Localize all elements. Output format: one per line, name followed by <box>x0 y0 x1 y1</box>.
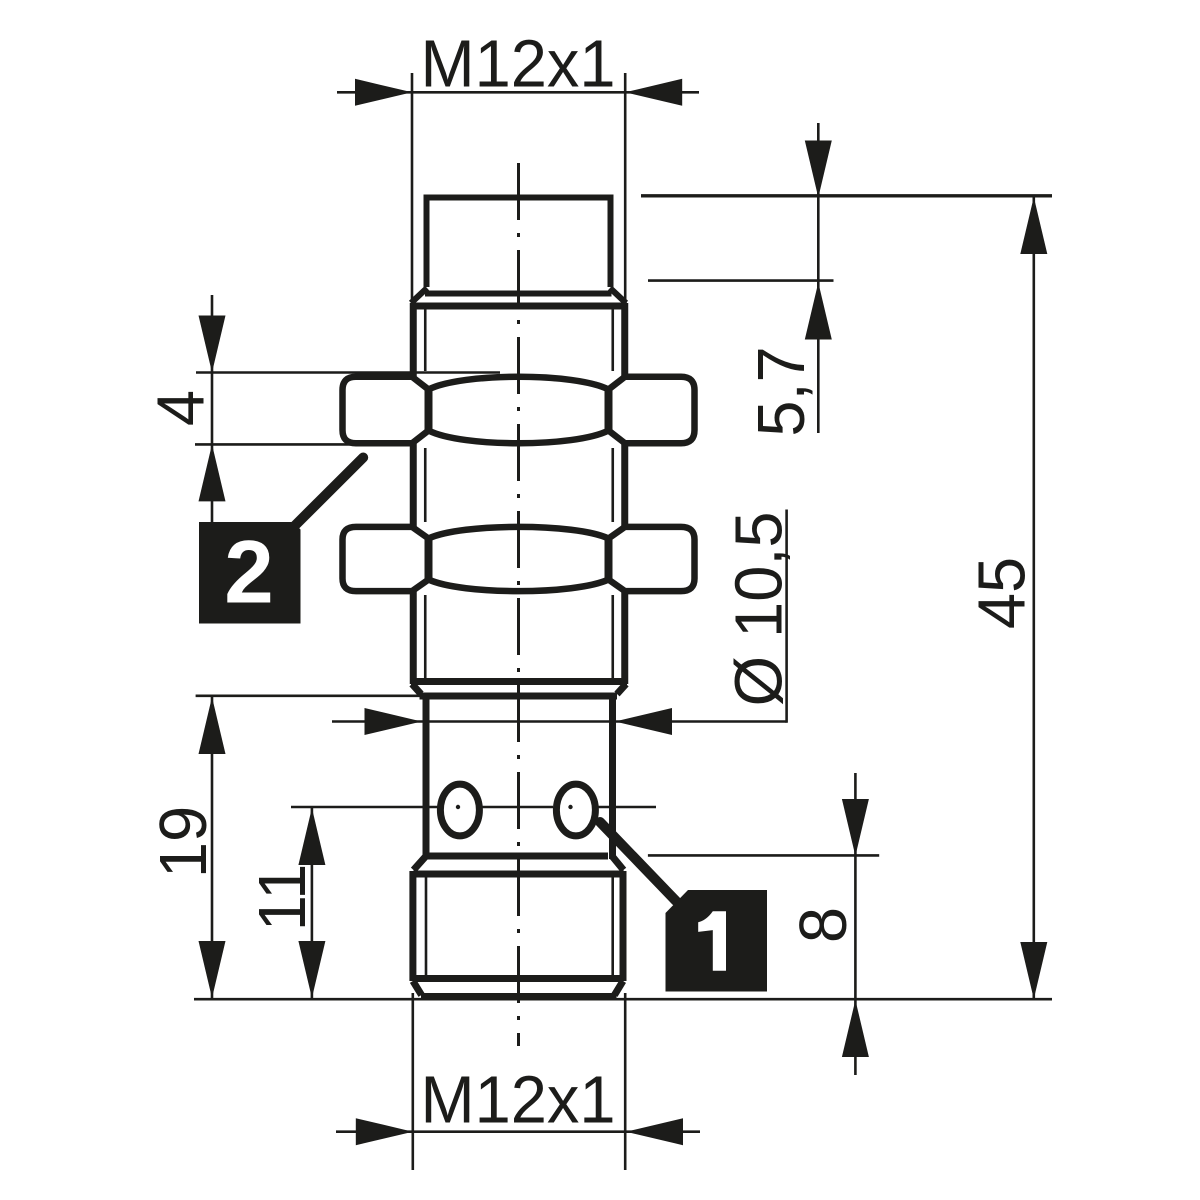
dimension 19: arrows <box>199 697 226 998</box>
LED hole left center dot <box>456 805 460 809</box>
dimension M12x1 top: text <box>420 26 615 101</box>
center line horizontal through LED holes <box>291 806 656 809</box>
svg-text:Ø 10,5: Ø 10,5 <box>721 511 796 706</box>
LED hole right center dot <box>568 805 572 809</box>
label box 2 digit <box>224 522 274 622</box>
dimension 8: dimension line <box>854 773 857 1075</box>
dimension 4: dimension line <box>211 295 214 522</box>
sensing head body edges <box>426 693 613 859</box>
connector body top rectangle <box>427 198 611 288</box>
thread section 3 major diameter edges <box>413 589 625 684</box>
label box 2 <box>199 522 301 624</box>
dimension 19: text <box>145 806 220 878</box>
svg-text:5,7: 5,7 <box>743 346 818 436</box>
svg-text:45: 45 <box>964 557 1039 629</box>
LED hole left <box>440 784 479 836</box>
dimension 4: reference lines <box>195 373 500 445</box>
reference line 5,7 lower <box>648 279 834 282</box>
dimension diameter 10,5: text <box>721 511 796 706</box>
dimension 45: dimension line <box>1033 197 1036 999</box>
thread section 2 major diameter edges <box>413 441 625 529</box>
dimension 4: text <box>142 390 217 426</box>
dimension M12x1 top: extension lines <box>412 73 625 301</box>
svg-text:2: 2 <box>224 522 274 622</box>
thread section 1 major diameter edges <box>413 303 625 377</box>
hex nut 1 <box>343 377 695 444</box>
dimension M12x1 top: dimension line <box>337 91 699 94</box>
reference line top of body (45 / 5,7 upper datum) <box>641 194 1052 197</box>
dimension 8: reference line <box>648 854 879 857</box>
bottom tip chamfer and face <box>413 981 623 997</box>
LED hole right <box>556 784 595 836</box>
svg-text:M12x1: M12x1 <box>420 26 615 101</box>
bottom datum line <box>194 998 1052 1001</box>
dimension 11: text <box>244 864 319 931</box>
svg-text:4: 4 <box>142 390 217 426</box>
dimension 5,7: text <box>743 346 818 436</box>
dimension M12x1 bottom: text <box>420 1061 615 1136</box>
dimension M12x1 bottom: dimension line <box>336 1130 700 1133</box>
dimension 45: arrows <box>1020 197 1047 999</box>
head bottom line <box>414 856 624 870</box>
label box 1 leader line <box>600 822 676 901</box>
dimension 5,7: arrows <box>805 141 832 340</box>
svg-text:M12x1: M12x1 <box>420 1061 615 1136</box>
dimension M12x1 top: arrows <box>355 79 682 106</box>
hex nut 2 <box>343 527 695 591</box>
dimension 45: text <box>964 557 1039 629</box>
dimension 5,7: dimension line <box>817 123 820 433</box>
label box 2 leader line <box>295 458 363 526</box>
label box 1 <box>666 890 768 992</box>
thread section 2 minor diameter lines <box>425 448 613 522</box>
bottom thread minor diameter lines <box>426 877 613 975</box>
dimension 11: dimension line <box>311 807 314 999</box>
dimension M12x1 bottom: extension lines <box>413 993 625 1170</box>
thread section 1 minor diameter lines <box>425 310 613 372</box>
dimension 11: arrows <box>298 808 325 998</box>
dimension diameter 10,5: arrows <box>365 708 673 735</box>
bottom thread rectangle <box>413 871 624 981</box>
svg-text:8: 8 <box>785 907 860 943</box>
dimension diameter 10,5: dimension line <box>332 510 787 723</box>
svg-text:19: 19 <box>145 806 220 878</box>
thread section 3 minor diameter lines <box>425 595 613 678</box>
dimension M12x1 bottom: arrows <box>356 1118 683 1145</box>
center line vertical (dash-dot) <box>517 163 520 1046</box>
label box 1 digit <box>698 911 726 971</box>
thread shoulder line <box>411 303 627 310</box>
dimension 19: dimension line <box>211 696 214 999</box>
svg-text:11: 11 <box>244 864 319 931</box>
dimension 8: arrows <box>842 799 869 1057</box>
dimension 19: reference line top <box>196 694 422 697</box>
connector flare bottom edge <box>411 288 626 303</box>
dimension 4: arrows <box>199 316 226 502</box>
dimension 8: text <box>785 907 860 943</box>
step line end of thread <box>411 682 627 697</box>
